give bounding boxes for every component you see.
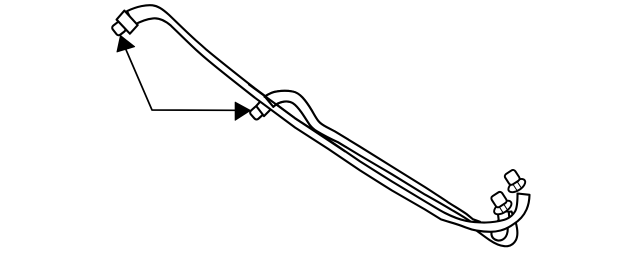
hose B right fitting cap F4 [504, 169, 521, 186]
arrowhead 2 (to middle fitting) [235, 102, 250, 120]
arrowhead 1 (to top-left fitting) [117, 36, 135, 52]
tube 2 hump redraw fill on top of tube 1 [265, 91, 349, 147]
tube 2 body under-layer: hump, run, taper into sweep [265, 91, 481, 222]
left fitting neck (white band under collar, over loop) [498, 213, 510, 223]
hose B left fitting collar [492, 198, 514, 217]
arrow callout lines [126, 49, 235, 110]
left fitting neck side lines [498, 213, 510, 223]
tube 2 hump outer outline [265, 91, 349, 140]
top-left fitting cap (hose A nipple) [111, 21, 126, 37]
middle fitting nut N2 [256, 97, 273, 117]
hose B left fitting cap F3 [490, 191, 507, 208]
tube 2 end loop (under sweep) [475, 212, 517, 247]
middle fitting cap (hose B inlet nipple) [249, 105, 265, 121]
top-left fitting nut N1 [117, 11, 138, 34]
tube 2 hump inner outline [273, 101, 346, 147]
tube 1 body: top-left fitting, bend, long run, sweep to right fitting [127, 5, 530, 232]
collar hatch lines [498, 202, 507, 212]
middle fitting nut upper-right side redraw [265, 97, 274, 107]
hose B right fitting collar [506, 176, 527, 195]
collar hatch lines [512, 181, 521, 191]
tube 1 upper outline redraw over hump [249, 85, 345, 152]
